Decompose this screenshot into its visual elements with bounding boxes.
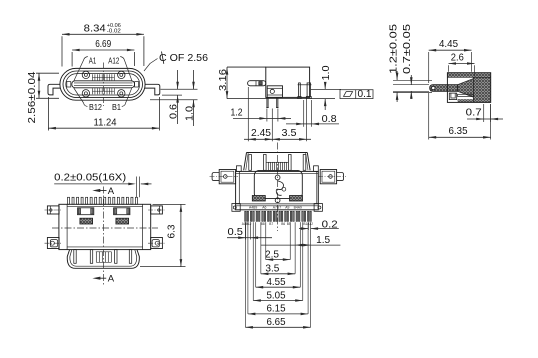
svg-text:6.3: 6.3 bbox=[166, 224, 178, 238]
svg-text:2.6: 2.6 bbox=[451, 51, 464, 63]
svg-text:1.0: 1.0 bbox=[320, 65, 332, 80]
svg-text:1.0: 1.0 bbox=[183, 106, 195, 121]
svg-text:A: A bbox=[108, 274, 115, 285]
svg-text:3.5: 3.5 bbox=[265, 263, 279, 275]
svg-text:3.16: 3.16 bbox=[217, 69, 229, 91]
svg-text:B12: B12 bbox=[89, 102, 102, 112]
svg-text:B1: B1 bbox=[112, 102, 121, 112]
svg-text:B8: B8 bbox=[261, 222, 265, 226]
svg-text:0.8: 0.8 bbox=[322, 113, 337, 125]
svg-text:B4A9: B4A9 bbox=[294, 205, 302, 209]
svg-text:1.2: 1.2 bbox=[231, 106, 243, 118]
svg-text:1.2±0.05: 1.2±0.05 bbox=[388, 23, 399, 74]
svg-text:0.5: 0.5 bbox=[228, 226, 244, 238]
svg-text:4.45: 4.45 bbox=[439, 38, 458, 50]
svg-text:0.7±0.05: 0.7±0.05 bbox=[402, 23, 413, 74]
svg-text:A4B9: A4B9 bbox=[249, 205, 257, 209]
svg-text:-0.02: -0.02 bbox=[107, 29, 121, 35]
svg-text:6.69: 6.69 bbox=[95, 38, 111, 50]
svg-text:A6: A6 bbox=[262, 205, 266, 209]
svg-text:A9: A9 bbox=[285, 205, 289, 209]
svg-text:A7B7: A7B7 bbox=[273, 205, 281, 209]
svg-text:4.55: 4.55 bbox=[267, 276, 286, 288]
svg-text:6.15: 6.15 bbox=[267, 303, 286, 315]
svg-text:0.2±0.05(16X): 0.2±0.05(16X) bbox=[54, 171, 126, 183]
svg-text:8.34: 8.34 bbox=[84, 22, 106, 34]
svg-text:A1: A1 bbox=[89, 55, 97, 65]
svg-text:2.45: 2.45 bbox=[251, 127, 271, 139]
svg-text:0.2: 0.2 bbox=[322, 219, 338, 231]
svg-text:A: A bbox=[108, 186, 115, 197]
svg-text:0.7: 0.7 bbox=[466, 106, 482, 118]
svg-text:2.5: 2.5 bbox=[265, 248, 279, 260]
svg-text:C OF 2.56: C OF 2.56 bbox=[159, 52, 208, 64]
svg-text:0.6: 0.6 bbox=[168, 104, 180, 119]
svg-text:5.05: 5.05 bbox=[267, 289, 286, 301]
svg-text:1.5: 1.5 bbox=[316, 234, 330, 246]
svg-text:3.5: 3.5 bbox=[282, 127, 297, 139]
svg-text:6.35: 6.35 bbox=[449, 125, 468, 137]
svg-text:A12: A12 bbox=[108, 55, 119, 65]
svg-text:0.1: 0.1 bbox=[358, 89, 372, 100]
svg-text:B6: B6 bbox=[281, 222, 285, 226]
svg-text:11.24: 11.24 bbox=[94, 116, 117, 128]
svg-text:2.56±0.04: 2.56±0.04 bbox=[26, 71, 38, 123]
svg-text:A1B12: A1B12 bbox=[242, 222, 252, 226]
svg-text:6.65: 6.65 bbox=[267, 316, 286, 328]
svg-text:B7: B7 bbox=[269, 222, 273, 226]
